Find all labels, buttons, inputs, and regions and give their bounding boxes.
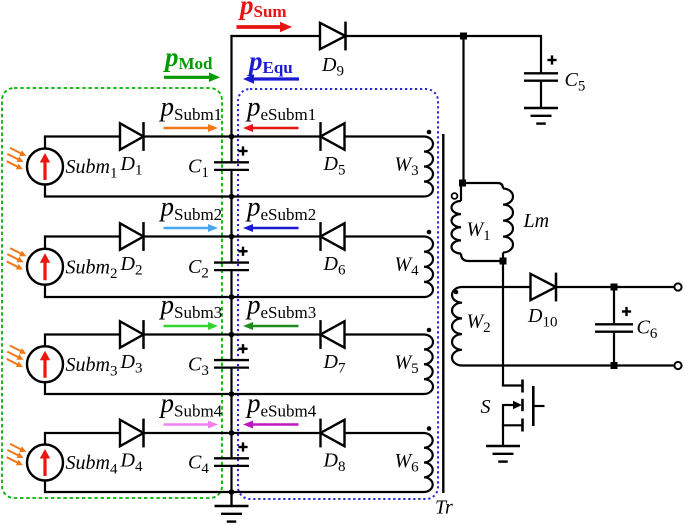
node bus row2 top [229, 234, 235, 240]
node bus row3 top [229, 332, 235, 338]
diode D2 [120, 223, 144, 249]
wire W6 bottom [232, 491, 425, 493]
sun irradiance rays Subm3 [10, 346, 22, 352]
svg-text:pSubm4: pSubm4 [159, 388, 223, 421]
node C6 bottom [611, 362, 618, 369]
node bus row4 top [229, 430, 235, 436]
wire main capacitor bus (vertical) [230, 35, 232, 162]
svg-text:pSum: pSum [238, 0, 287, 21]
node bus row3 bottom [229, 391, 235, 397]
svg-text:Subm1: Subm1 [66, 156, 118, 182]
polarity dot W4 [427, 230, 432, 235]
svg-text:Lm: Lm [523, 210, 550, 232]
diode D9 [320, 23, 346, 49]
wire W2 top to D10 [462, 286, 531, 288]
svg-text:D10: D10 [527, 305, 557, 331]
wire Subm1 bottom [44, 184, 46, 197]
svg-text:S: S [481, 396, 491, 418]
equalizer/transformer boundary Tr (blue dotted box) [238, 89, 438, 499]
wire top rail left of D9 [230, 35, 320, 37]
arrow p_eSubm3 [252, 325, 299, 327]
winding W4 [424, 237, 433, 298]
transformer core [442, 134, 444, 493]
svg-text:peSubm3: peSubm3 [245, 290, 316, 323]
svg-text:C4: C4 [188, 452, 209, 478]
arrow p_eSubm4 [252, 423, 299, 425]
current source Subm2 (PV submodule) [27, 249, 63, 285]
capacitor C4 [214, 457, 249, 459]
current source Subm3 (PV submodule) [27, 346, 63, 382]
svg-text:D5: D5 [323, 153, 346, 179]
arrow p_Sum [237, 25, 282, 29]
wire D2 to bus [145, 235, 232, 237]
diode D3 [120, 321, 144, 347]
svg-text:C3: C3 [188, 353, 209, 379]
arrow p_Subm2 [164, 227, 210, 229]
wire bus to D6 [232, 235, 321, 237]
node rail junction [460, 33, 467, 40]
svg-text:D2: D2 [120, 253, 143, 279]
diode D6 [321, 223, 345, 249]
svg-text:C1: C1 [188, 156, 209, 182]
current source Subm1 (PV submodule) [27, 149, 63, 185]
wire D10 to output+ [556, 286, 674, 288]
wire D5 to W3 [345, 135, 425, 137]
capacitor C5 [524, 72, 558, 74]
svg-text:D9: D9 [321, 54, 344, 80]
wire Subm2 bottom [44, 284, 46, 297]
transistor S (MOSFET) [521, 380, 524, 393]
node W1/Lm bottom junction [500, 258, 507, 265]
wire bus to D7 [232, 333, 321, 335]
wire D3 to bus [145, 333, 232, 335]
output terminal - (bottom right) [674, 362, 681, 369]
winding W5 [424, 335, 433, 395]
wire bus to D5 [232, 135, 321, 137]
winding W2 [452, 287, 462, 366]
polarity dot W5 [427, 328, 432, 333]
svg-text:pEqu: pEqu [247, 46, 293, 77]
wire Subm4 top [44, 432, 120, 434]
svg-text:D3: D3 [120, 351, 143, 377]
diode D5 [321, 123, 345, 149]
plus sign C2 [238, 250, 247, 252]
svg-text:D8: D8 [323, 450, 346, 476]
wire Subm2 top [44, 235, 120, 237]
polarity dot W2 [454, 290, 459, 295]
node bus row2 bottom [229, 294, 235, 300]
svg-text:W6: W6 [395, 450, 420, 476]
ground under switch [486, 445, 520, 447]
plus sign C1 [238, 150, 247, 152]
plus sign C6 [622, 310, 631, 312]
ground under bus [215, 505, 249, 507]
arrow p_Subm4 [164, 423, 210, 425]
svg-text:peSubm1: peSubm1 [245, 92, 316, 125]
wire W3 bottom [232, 195, 425, 197]
arrow p_Subm3 [164, 325, 210, 327]
arrow p_Mod [164, 76, 210, 79]
diode D4 [120, 420, 144, 446]
diode D10 [531, 274, 557, 300]
svg-text:D6: D6 [323, 253, 346, 279]
sun irradiance rays Subm4 [10, 444, 22, 450]
svg-text:W1: W1 [467, 219, 491, 245]
wire D7 to W5 [345, 333, 425, 335]
wire Lm junction to switch drain [502, 261, 504, 386]
wire bus to ground [230, 492, 232, 506]
svg-text:pSubm1: pSubm1 [159, 92, 223, 125]
diode D8 [321, 420, 345, 446]
polarity dot W1 (open) [452, 193, 458, 199]
arrow p_Equ [253, 77, 299, 80]
wire D6 to W4 [345, 235, 425, 237]
wire rail corner down to C5 [540, 35, 542, 73]
wire W2 bottom to output- [462, 364, 674, 366]
wire C6 bottom [613, 332, 615, 366]
winding W3 [424, 137, 433, 197]
plus sign C5 [547, 59, 556, 61]
diode D1 [120, 123, 144, 149]
svg-text:D7: D7 [323, 351, 346, 377]
wire bus to D8 [232, 432, 321, 434]
node C6 top [611, 284, 618, 291]
svg-text:D1: D1 [120, 153, 143, 179]
svg-text:D4: D4 [120, 450, 143, 476]
wire junction to Lm [461, 182, 498, 184]
ground under C5 [524, 107, 558, 109]
wire top rail D9 to C5 corner [346, 35, 542, 37]
svg-text:W5: W5 [395, 352, 419, 378]
arrow p_Subm1 [164, 127, 210, 129]
wire Subm3 top [44, 333, 120, 335]
wire junction to W1 [460, 183, 462, 201]
arrow p_eSubm2 [252, 227, 299, 229]
plus sign C3 [238, 348, 247, 350]
wire D8 to W6 [345, 432, 425, 434]
polarity dot W6 [427, 426, 432, 431]
svg-text:W4: W4 [395, 254, 420, 280]
wire C5 to ground [540, 81, 542, 108]
inductor Lm (magnetizing) [498, 183, 504, 189]
arrow p_eSubm1 [252, 127, 299, 129]
sun irradiance rays Subm2 [10, 248, 22, 254]
wire W5 bottom [232, 393, 425, 395]
wire Subm4 bottom [44, 480, 46, 492]
svg-text:peSubm4: peSubm4 [245, 388, 317, 421]
svg-text:C2: C2 [188, 256, 209, 282]
PV module group boundary (green dashed box) [2, 88, 222, 498]
svg-text:W3: W3 [395, 154, 419, 180]
plus sign C4 [238, 446, 247, 448]
wire D1 to bus [145, 135, 232, 137]
node bus row1 bottom [229, 194, 235, 200]
capacitor C1 [214, 161, 249, 163]
svg-text:Subm4: Subm4 [66, 452, 118, 478]
node bus row1 top [229, 134, 235, 140]
wire Subm1 top [44, 135, 120, 137]
svg-text:pSubm3: pSubm3 [159, 290, 223, 323]
svg-text:Subm3: Subm3 [66, 354, 118, 380]
svg-text:pMod: pMod [163, 42, 213, 73]
polarity dot W3 [427, 130, 432, 135]
wire W4 bottom [232, 296, 425, 298]
winding W1 [451, 201, 461, 254]
capacitor C6 [595, 323, 633, 325]
node bus row4 bottom [229, 489, 235, 495]
capacitor C2 [214, 261, 249, 263]
output terminal + (top right) [674, 283, 681, 290]
svg-text:W2: W2 [467, 311, 491, 337]
wire D4 to bus [145, 432, 232, 434]
svg-text:C5: C5 [565, 69, 586, 95]
svg-text:Subm2: Subm2 [66, 256, 118, 282]
wire Subm3 bottom [44, 382, 46, 394]
current source Subm4 (PV submodule) [27, 445, 63, 481]
winding W6 [424, 433, 433, 492]
node W1/Lm top junction [459, 180, 466, 187]
wire C6 top [613, 287, 615, 324]
svg-text:Tr: Tr [435, 497, 453, 519]
diode D7 [321, 321, 345, 347]
sun irradiance rays Subm1 [10, 148, 22, 154]
wire rail to W1 top [462, 36, 464, 183]
capacitor C3 [214, 359, 249, 361]
svg-text:C6: C6 [637, 317, 658, 343]
